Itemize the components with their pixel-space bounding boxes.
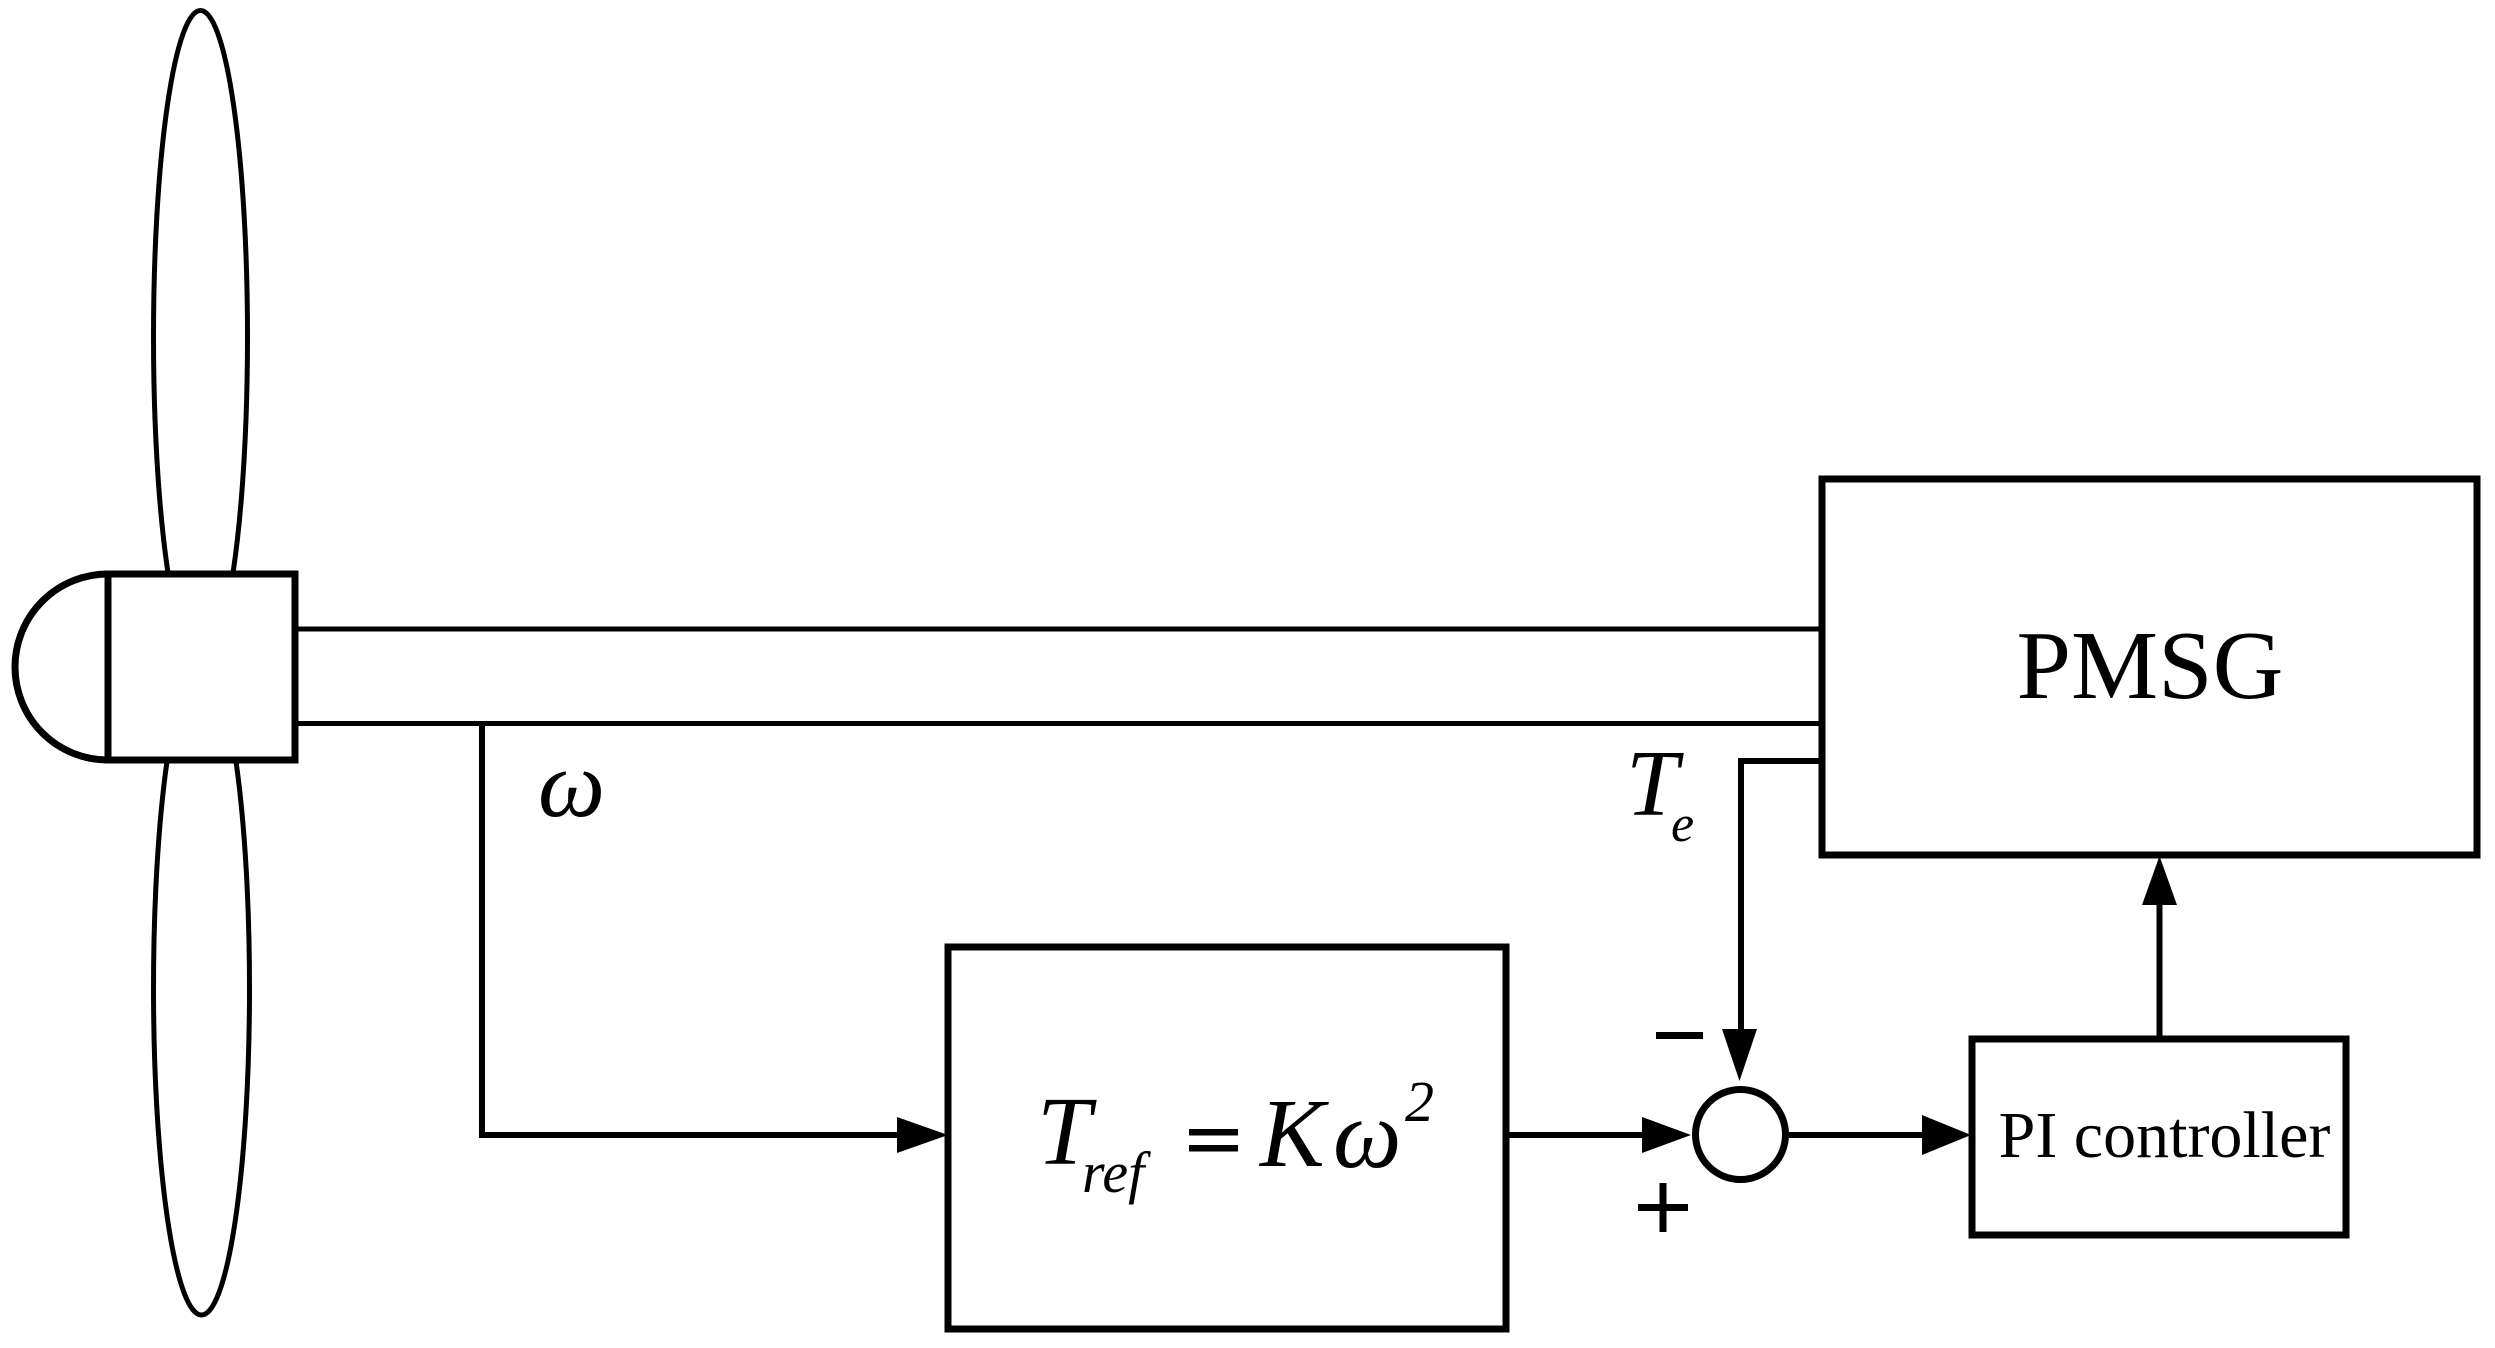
label plus: [1638, 1183, 1688, 1232]
nose cone: [15, 574, 108, 760]
arrowhead into PI controller: [1922, 1115, 1971, 1155]
wire Te vertical: [1738, 758, 1744, 1032]
turbine blade top: [154, 11, 248, 664]
block PMSG: [1822, 479, 2477, 855]
svg-text:2: 2: [1405, 1069, 1434, 1134]
wire Tref to summing junction: [1506, 1132, 1650, 1138]
label Te: [1626, 732, 1694, 853]
svg-text:e: e: [1671, 796, 1694, 853]
wire omega vertical: [479, 721, 485, 1135]
svg-text:PI controller: PI controller: [1999, 1099, 2331, 1172]
svg-text:K: K: [1258, 1080, 1329, 1187]
label minus: [1656, 1032, 1703, 1039]
arrowhead into summing junction left: [1642, 1117, 1691, 1153]
wire PI controller to PMSG: [2157, 903, 2163, 1039]
wire shaft bottom: [295, 721, 1822, 726]
wire shaft top: [295, 627, 1822, 632]
wire Te stub horizontal: [1741, 758, 1822, 764]
svg-text:ref: ref: [1082, 1140, 1151, 1205]
turbine blade bottom: [154, 662, 250, 1315]
arrowhead down into summing junction: [1722, 1029, 1757, 1081]
hub: [108, 574, 295, 760]
wire omega horizontal: [479, 1132, 905, 1138]
svg-text:ω: ω: [538, 731, 605, 837]
svg-text:ω: ω: [1333, 1081, 1402, 1188]
arrowhead up into PMSG: [2142, 856, 2177, 905]
block Tref equation: [948, 947, 1506, 1329]
arrowhead into Tref block: [897, 1117, 948, 1153]
wire summing junction to PI controller: [1789, 1132, 1927, 1138]
block PI controller: [1972, 1039, 2346, 1235]
summing junction: [1696, 1090, 1786, 1180]
svg-text:PMSG: PMSG: [2017, 612, 2284, 720]
